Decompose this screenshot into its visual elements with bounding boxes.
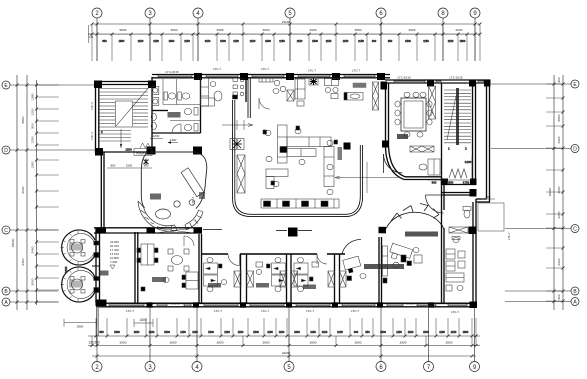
svg-text:4600: 4600 (409, 28, 416, 32)
svg-text:3800: 3800 (400, 340, 407, 344)
svg-text:1150: 1150 (267, 330, 273, 334)
svg-text:3680: 3680 (217, 28, 224, 32)
svg-text:1500: 1500 (119, 39, 125, 43)
svg-text:1500: 1500 (463, 330, 469, 334)
svg-text:LTC-7: LTC-7 (351, 309, 359, 313)
svg-text:900: 900 (557, 77, 561, 82)
svg-text:900: 900 (557, 294, 561, 299)
svg-text:1500: 1500 (265, 39, 271, 43)
svg-text:1150: 1150 (448, 39, 454, 43)
svg-text:1150: 1150 (153, 39, 159, 43)
svg-text:1150: 1150 (297, 39, 303, 43)
svg-text:LTC-7: LTC-7 (214, 309, 222, 313)
svg-text:2860: 2860 (77, 325, 84, 329)
svg-text:1150: 1150 (343, 39, 349, 43)
svg-text:1150: 1150 (310, 330, 316, 334)
svg-text:5800: 5800 (21, 116, 25, 123)
svg-text:1200: 1200 (153, 134, 160, 138)
svg-text:3800: 3800 (170, 340, 177, 344)
svg-text:LTC-7: LTC-7 (308, 69, 316, 73)
svg-text:6000: 6000 (21, 186, 25, 193)
svg-text:3800: 3800 (310, 340, 317, 344)
svg-text:LTC-7: LTC-7 (261, 67, 269, 71)
svg-text:18600: 18600 (11, 238, 15, 247)
svg-text:6200: 6200 (557, 258, 561, 265)
svg-text:2460: 2460 (64, 266, 68, 273)
svg-text:LTC-1515: LTC-1515 (165, 70, 178, 74)
svg-text:LTC-7: LTC-7 (261, 309, 269, 313)
svg-text:2000: 2000 (456, 28, 463, 32)
svg-text:1150: 1150 (138, 39, 144, 43)
svg-text:LTC-7: LTC-7 (507, 232, 511, 240)
svg-text:500: 500 (31, 123, 35, 128)
svg-text:6300: 6300 (21, 258, 25, 265)
svg-text:1500: 1500 (126, 164, 133, 168)
svg-text:850: 850 (102, 39, 107, 43)
svg-text:1500: 1500 (164, 330, 170, 334)
svg-text:130,500: 130,500 (88, 340, 100, 344)
svg-text:LTC-5: LTC-5 (406, 302, 414, 306)
svg-text:LTC-7: LTC-7 (306, 309, 314, 313)
svg-text:2600: 2600 (310, 28, 317, 32)
svg-text:1150: 1150 (184, 39, 190, 43)
svg-text:1500: 1500 (405, 39, 411, 43)
svg-text:1500: 1500 (220, 39, 226, 43)
svg-text:1150: 1150 (205, 39, 211, 43)
svg-text:850: 850 (111, 164, 116, 168)
svg-text:LTC-5: LTC-5 (171, 302, 179, 306)
svg-text:3000: 3000 (31, 278, 35, 285)
svg-text:850: 850 (388, 39, 393, 43)
svg-text:900: 900 (372, 39, 377, 43)
svg-text:3600: 3600 (171, 28, 178, 32)
svg-text:1150: 1150 (423, 39, 429, 43)
svg-text:C: C (573, 227, 577, 233)
svg-text:1150: 1150 (322, 330, 328, 334)
svg-text:2200: 2200 (557, 211, 561, 218)
svg-text:1150: 1150 (180, 330, 186, 334)
svg-text:1500: 1500 (114, 330, 120, 334)
svg-text:LTC-4: LTC-4 (90, 102, 94, 110)
svg-text:D: D (573, 147, 577, 153)
svg-text:1150: 1150 (238, 330, 244, 334)
svg-text:1150: 1150 (451, 330, 457, 334)
svg-text:1500: 1500 (447, 181, 454, 185)
svg-text:1150: 1150 (408, 330, 414, 334)
svg-text:1150: 1150 (396, 330, 402, 334)
svg-text:3800: 3800 (217, 340, 224, 344)
svg-text:2000: 2000 (557, 186, 561, 193)
svg-text:LTC-1515: LTC-1515 (449, 76, 462, 80)
svg-text:1150: 1150 (250, 39, 256, 43)
svg-text:1500: 1500 (253, 330, 259, 334)
svg-text:1200: 1200 (31, 136, 35, 143)
svg-text:1500: 1500 (423, 330, 429, 334)
svg-text:LTC-1515: LTC-1515 (397, 76, 410, 80)
svg-text:LTC-7: LTC-7 (451, 310, 459, 314)
svg-text:1200: 1200 (465, 160, 472, 164)
svg-text:1500: 1500 (139, 318, 146, 322)
svg-text:LTC-4: LTC-4 (90, 132, 94, 140)
svg-text:2460: 2460 (31, 246, 35, 253)
svg-text:1150: 1150 (439, 330, 445, 334)
svg-text:1500: 1500 (460, 39, 466, 43)
svg-text:1150: 1150 (149, 330, 155, 334)
svg-text:1500: 1500 (312, 39, 318, 43)
svg-text:1200: 1200 (126, 148, 133, 152)
svg-text:900: 900 (354, 330, 359, 334)
svg-text:600: 600 (432, 181, 437, 185)
svg-text:850: 850 (144, 164, 149, 168)
svg-text:21000: 21000 (282, 20, 291, 24)
svg-text:1300: 1300 (31, 161, 35, 168)
svg-text:1200: 1200 (31, 108, 35, 115)
svg-text:LTC-4: LTC-4 (191, 197, 195, 205)
svg-text:2150: 2150 (337, 330, 343, 334)
svg-text:1150: 1150 (326, 39, 332, 43)
svg-text:5800: 5800 (120, 28, 127, 32)
svg-text:1380: 1380 (31, 93, 35, 100)
svg-text:3800: 3800 (355, 340, 362, 344)
svg-text:1500: 1500 (294, 330, 300, 334)
svg-text:1500: 1500 (169, 39, 175, 43)
svg-text:7.500: 7.500 (110, 260, 118, 264)
svg-text:C: C (4, 228, 8, 234)
svg-text:1300: 1300 (170, 138, 177, 142)
svg-text:280: 280 (486, 195, 491, 199)
svg-text:2150: 2150 (358, 39, 364, 43)
svg-text:3800: 3800 (446, 340, 453, 344)
svg-text:PHMF827: PHMF827 (136, 152, 150, 156)
svg-text:3880: 3880 (355, 28, 362, 32)
svg-text:850: 850 (365, 330, 370, 334)
svg-text:D: D (4, 148, 8, 154)
svg-text:1150: 1150 (279, 39, 285, 43)
svg-text:LTC-7: LTC-7 (126, 309, 134, 313)
svg-text:5500: 5500 (557, 114, 561, 121)
svg-text:LTC-7: LTC-7 (213, 67, 221, 71)
svg-text:3800: 3800 (263, 28, 270, 32)
svg-text:850: 850 (99, 330, 104, 334)
svg-text:3800: 3800 (120, 340, 127, 344)
svg-text:1150: 1150 (279, 330, 285, 334)
svg-text:2300: 2300 (557, 136, 561, 143)
svg-text:1150: 1150 (134, 330, 140, 334)
svg-text:LTC-7: LTC-7 (352, 69, 360, 73)
svg-text:130: 130 (89, 35, 94, 39)
svg-text:1150: 1150 (192, 330, 198, 334)
svg-text:1150: 1150 (233, 39, 239, 43)
svg-text:1733: 1733 (463, 181, 470, 185)
svg-text:1500: 1500 (208, 330, 214, 334)
svg-text:3800: 3800 (263, 340, 270, 344)
svg-text:1500: 1500 (380, 330, 386, 334)
svg-text:1150: 1150 (224, 330, 230, 334)
